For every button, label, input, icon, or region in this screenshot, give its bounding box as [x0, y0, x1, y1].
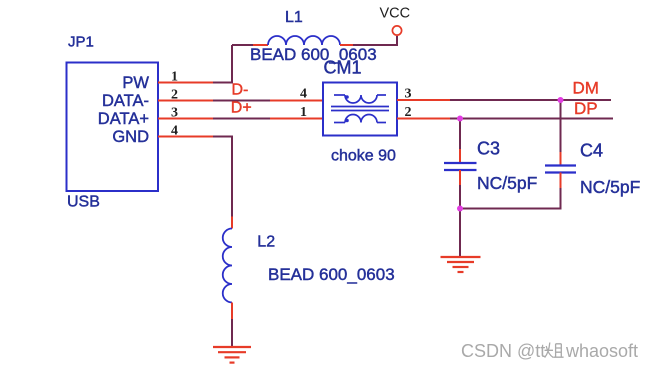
- CM1 core lines: [331, 107, 389, 111]
- inductor L2 lead top: [231, 217, 233, 229]
- JP1 pin 3 lead: [158, 118, 213, 120]
- CM1 pin 3 lead: [397, 99, 450, 101]
- capacitor C3: [444, 163, 477, 170]
- JP1 pin 2 lead: [158, 100, 213, 102]
- wire pin4 to L2: [213, 137, 232, 217]
- wire C4 to bottom rail: [460, 188, 561, 209]
- CM1 bottom polarity dot: [345, 119, 349, 123]
- wire net D-: [213, 100, 270, 102]
- wire C3 to bottom junction: [459, 185, 461, 209]
- svg-text:VCC: VCC: [380, 6, 411, 22]
- JP1 pin 4 lead: [158, 136, 213, 138]
- capacitor C3 lead bottom: [459, 170, 461, 185]
- svg-text:D-: D-: [232, 82, 249, 99]
- wire net DP: [450, 118, 613, 120]
- inductor L1 lead left: [253, 44, 268, 46]
- wire pin1 to L1 riser: [213, 45, 232, 83]
- CM1 pin 1 lead: [270, 118, 323, 120]
- JP1 pin 1 lead: [158, 82, 213, 84]
- inductor L2 lead bottom: [231, 303, 233, 320]
- svg-text:4: 4: [300, 87, 307, 102]
- svg-text:C3: C3: [477, 139, 500, 159]
- svg-text:choke 90: choke 90: [331, 148, 396, 165]
- CM1 top polarity dot: [345, 95, 349, 99]
- junction C3/C4 bottom: [457, 206, 463, 212]
- wire DP junction to C3: [459, 119, 461, 150]
- capacitor C4 lead top: [560, 152, 562, 166]
- wire net D+: [213, 118, 270, 120]
- svg-text:DP: DP: [574, 99, 598, 118]
- svg-text:DATA+: DATA+: [98, 110, 149, 128]
- svg-text:L2: L2: [257, 234, 275, 251]
- svg-text:NC/5pF: NC/5pF: [477, 173, 537, 193]
- junction DM / C4: [558, 97, 564, 103]
- svg-text:GND: GND: [112, 128, 149, 146]
- wire junction to ground: [459, 209, 461, 257]
- svg-text:D+: D+: [231, 100, 252, 117]
- wire net DM: [450, 99, 611, 101]
- inductor L2: [223, 229, 232, 303]
- inductor L1: [268, 36, 340, 45]
- wire L1 left: [232, 44, 253, 46]
- CM1 pin 2 lead: [397, 118, 450, 120]
- svg-text:whaosoft: whaosoft: [565, 341, 638, 361]
- CM1 pin 4 lead: [270, 100, 323, 102]
- capacitor C4 lead bottom: [560, 173, 562, 189]
- svg-text:BEAD 600_0603: BEAD 600_0603: [268, 265, 395, 284]
- common-mode choke CM1 box: [323, 83, 397, 136]
- power terminal VCC: [392, 26, 401, 35]
- CM1 top winding: [334, 95, 386, 103]
- wire L1 to VCC: [353, 36, 397, 45]
- ground symbol (under C3/C4): [441, 257, 481, 272]
- svg-text:PW: PW: [122, 74, 149, 92]
- capacitor C3 lead top: [459, 149, 461, 163]
- svg-text:NC/5pF: NC/5pF: [580, 177, 640, 197]
- junction DP / C3: [457, 116, 463, 122]
- svg-text:CSDN @tt: CSDN @tt: [461, 341, 545, 361]
- svg-text:1: 1: [300, 105, 307, 120]
- svg-text:JP1: JP1: [68, 34, 94, 51]
- svg-text:USB: USB: [67, 194, 100, 211]
- svg-text:DATA-: DATA-: [102, 92, 149, 110]
- svg-text:CM1: CM1: [324, 58, 362, 78]
- svg-text:L1: L1: [285, 9, 303, 26]
- connector JP1: [67, 63, 159, 192]
- CM1 bottom winding: [334, 115, 386, 123]
- wire DM junction to C4: [560, 100, 562, 152]
- svg-text:DM: DM: [573, 79, 599, 98]
- capacitor C4: [545, 166, 576, 173]
- inductor L1 lead right: [340, 44, 353, 46]
- ground symbol (under L2): [213, 347, 251, 363]
- svg-text:C4: C4: [580, 141, 603, 161]
- wire L2 to ground: [231, 319, 233, 346]
